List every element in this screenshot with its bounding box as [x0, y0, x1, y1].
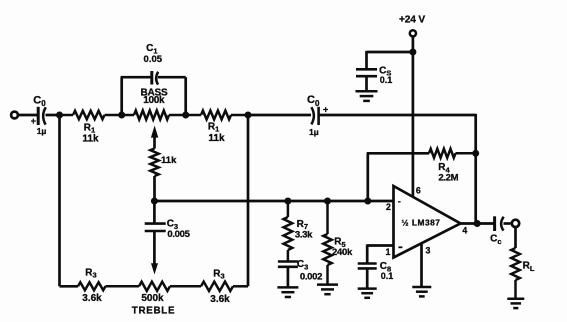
ground	[277, 287, 298, 297]
svg-text:11k: 11k	[208, 133, 225, 144]
capacitor C0 1u	[307, 94, 328, 137]
svg-text:½ LM387: ½ LM387	[402, 218, 441, 228]
pin 6 label	[416, 186, 421, 196]
capacitor C8 0.1	[358, 261, 394, 281]
svg-text:3.3k: 3.3k	[295, 230, 313, 241]
pin 1 label	[386, 247, 391, 257]
svg-text:RL: RL	[523, 261, 535, 273]
svg-text:C0: C0	[33, 94, 46, 108]
wire	[474, 114, 477, 224]
ground	[356, 91, 378, 101]
ground	[358, 289, 377, 298]
wire	[366, 268, 369, 288]
node F	[284, 198, 291, 205]
svg-text:0.002: 0.002	[300, 272, 322, 283]
svg-text:2.2M: 2.2M	[438, 173, 458, 184]
+24V terminal	[410, 30, 416, 36]
wire	[504, 222, 511, 225]
capacitor CS 0.1	[356, 65, 392, 85]
wire pin 1	[367, 244, 393, 263]
svg-text:+: +	[31, 116, 36, 126]
svg-text:6: 6	[416, 186, 421, 196]
svg-text:R1: R1	[208, 121, 219, 133]
svg-text:11k: 11k	[161, 155, 177, 166]
resistor R3 3.6k	[78, 267, 139, 304]
capacitor C3 0.005	[145, 219, 191, 240]
wire	[158, 77, 186, 115]
svg-text:1µ: 1µ	[309, 127, 319, 137]
resistor R1 11k	[186, 111, 248, 144]
potentiometer TREBLE 500k	[132, 282, 175, 317]
potentiometer BASS 100k	[122, 87, 186, 119]
node G	[324, 198, 331, 205]
svg-text:11k: 11k	[82, 133, 99, 144]
wire	[121, 77, 151, 115]
svg-text:TREBLE: TREBLE	[132, 305, 175, 316]
wire output	[458, 222, 494, 225]
resistor R7 3.3k	[284, 201, 314, 262]
wire	[153, 176, 156, 201]
svg-text:0.1: 0.1	[381, 271, 394, 281]
wire	[154, 200, 393, 203]
wire	[514, 227, 517, 248]
svg-text:3: 3	[426, 246, 431, 256]
wire	[153, 201, 156, 223]
node E	[245, 112, 252, 119]
+24V supply label	[399, 14, 425, 25]
pin 2 label	[386, 202, 391, 212]
resistor 11k wiper	[150, 149, 177, 177]
resistor RL	[511, 248, 535, 298]
wire	[19, 114, 38, 117]
node H	[364, 198, 371, 205]
capacitor C3 0.002	[278, 259, 322, 283]
capacitor C1 0.05	[144, 43, 163, 85]
wire pin 6 supply	[412, 52, 415, 198]
wire	[367, 51, 413, 69]
wire	[412, 37, 415, 53]
bass wiper arrow	[151, 126, 158, 149]
output node	[474, 220, 481, 227]
svg-text:1µ: 1µ	[37, 126, 47, 136]
node D	[151, 198, 158, 205]
supply node	[409, 49, 416, 56]
wire	[248, 114, 311, 117]
svg-text:Cc: Cc	[490, 234, 501, 246]
capacitor C0 1u	[31, 94, 47, 136]
svg-text:+24 V: +24 V	[399, 14, 425, 25]
wire	[58, 115, 61, 286]
node C	[182, 112, 189, 119]
node A	[56, 112, 63, 119]
output terminal	[512, 220, 519, 227]
resistor R5 240k	[323, 201, 353, 284]
svg-text:2: 2	[386, 202, 391, 212]
node B	[118, 112, 125, 119]
svg-text:C0: C0	[307, 94, 320, 108]
capacitor Cc	[490, 216, 504, 246]
svg-text:240k: 240k	[332, 247, 353, 258]
svg-text:+: +	[323, 105, 328, 115]
resistor R4 2.2M	[367, 149, 476, 201]
input terminal	[11, 112, 18, 119]
ground	[317, 285, 338, 295]
wire	[247, 115, 250, 286]
op-amp U1 1/2 LM387	[394, 186, 461, 258]
wire	[319, 114, 476, 117]
treble wiper arrow	[151, 231, 158, 275]
ground	[412, 287, 431, 296]
pin 4 label	[462, 225, 467, 235]
svg-text:0.05: 0.05	[144, 54, 163, 65]
resistor R3 3.6k	[170, 268, 248, 305]
svg-text:R3: R3	[213, 268, 224, 280]
svg-text:1: 1	[386, 247, 391, 257]
wire	[365, 76, 368, 90]
svg-text:0.005: 0.005	[167, 229, 190, 240]
feedback node	[472, 150, 479, 157]
ground	[507, 299, 524, 308]
wire pin 3	[420, 243, 423, 286]
svg-text:3.6k: 3.6k	[82, 293, 102, 304]
svg-text:100k: 100k	[143, 95, 165, 106]
wire	[46, 114, 60, 117]
pin 3 label	[426, 246, 431, 256]
wire	[287, 267, 290, 287]
svg-text:4: 4	[462, 225, 467, 235]
resistor R1 11k	[60, 111, 122, 145]
wire	[60, 285, 79, 288]
svg-text:R3: R3	[85, 267, 96, 279]
svg-text:C3: C3	[297, 259, 308, 271]
svg-text:0.1: 0.1	[380, 75, 393, 85]
svg-text:500k: 500k	[141, 293, 164, 304]
svg-text:3.6k: 3.6k	[210, 294, 230, 305]
